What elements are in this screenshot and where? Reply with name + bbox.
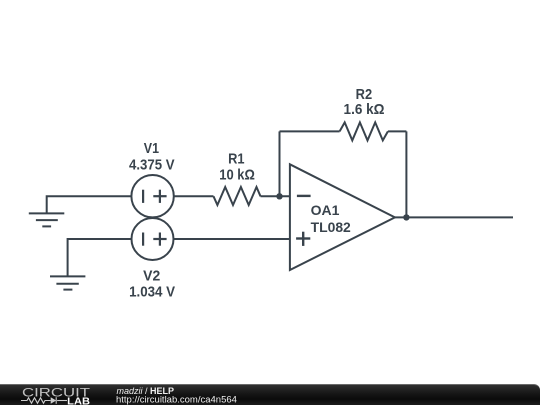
wire: feedback vertical left <box>279 131 281 196</box>
wire: feedback top right <box>388 130 407 132</box>
wire: GND1 to V1 negative lead <box>47 196 132 213</box>
ground GND2 <box>50 276 85 289</box>
svg-text:V1: V1 <box>144 140 159 157</box>
svg-text:R1: R1 <box>228 150 244 167</box>
wire: R1 to inverting input <box>261 195 290 197</box>
voltage source V2 <box>132 218 174 260</box>
logo schematic doodle: wire, resistor, diode <box>21 397 67 404</box>
svg-text:V2: V2 <box>143 267 160 284</box>
wire: feedback top left <box>280 130 340 132</box>
node: output junction <box>403 214 409 220</box>
resistor R2 <box>340 122 388 140</box>
wire: V2 positive lead to non-inverting input <box>174 238 290 240</box>
op-amp OA1 triangle <box>290 164 395 270</box>
wire: V1 positive lead to R1 <box>174 195 214 197</box>
svg-text:TL082: TL082 <box>311 219 351 235</box>
svg-text:1.6 kΩ: 1.6 kΩ <box>344 101 385 118</box>
wire: GND2 to V2 negative lead <box>68 239 132 276</box>
resistor R1 <box>214 187 261 205</box>
svg-text:4.375 V: 4.375 V <box>129 156 175 173</box>
svg-text:1.034 V: 1.034 V <box>129 283 175 300</box>
svg-text:http://circuitlab.com/ca4n564: http://circuitlab.com/ca4n564 <box>116 395 237 405</box>
op-amp OA1 plus marker <box>296 232 310 246</box>
ground GND1 <box>29 213 65 226</box>
wire: feedback vertical right <box>405 131 407 217</box>
footer bar <box>0 384 540 405</box>
node: inverting input junction <box>276 193 282 199</box>
svg-text:10 kΩ: 10 kΩ <box>219 167 255 184</box>
voltage source V1 <box>131 175 173 217</box>
svg-text:OA1: OA1 <box>311 202 340 218</box>
wire: output <box>395 216 513 218</box>
op-amp OA1 minus marker <box>297 195 311 197</box>
svg-text:LAB: LAB <box>67 397 90 405</box>
